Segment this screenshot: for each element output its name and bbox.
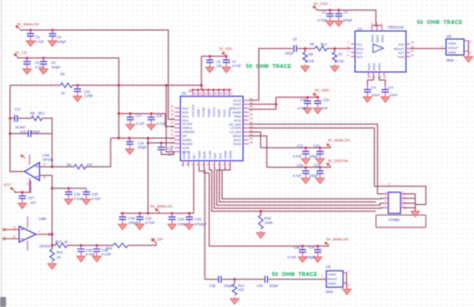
wire top bar riser — [200, 56, 202, 90]
connector CON8A left pins — [384, 194, 388, 208]
svg-text:C4: C4 — [57, 35, 61, 39]
capacitor C22 — [316, 148, 325, 164]
capacitor C6 — [39, 58, 48, 74]
IC U2 left pins — [175, 108, 181, 151]
wire RF out — [249, 49, 293, 101]
svg-text:C6: C6 — [51, 61, 55, 65]
svg-text:2.2NF: 2.2NF — [84, 94, 93, 98]
svg-text:VCC2: VCC2 — [222, 109, 226, 117]
svg-text:100pF: 100pF — [51, 66, 60, 70]
resistor R10 — [260, 211, 262, 215]
wire 3V_VDD to pins — [249, 97, 276, 109]
capacitor C26 — [82, 188, 91, 204]
svg-text:IN/OUT: IN/OUT — [448, 46, 458, 50]
svg-text:C33: C33 — [195, 218, 202, 222]
wire C12 branch — [10, 117, 31, 119]
svg-text:C27: C27 — [28, 196, 34, 200]
svg-text:C17: C17 — [136, 114, 142, 118]
ground R10 — [257, 231, 266, 238]
svg-text:1K: 1K — [57, 256, 62, 260]
svg-text:VCCV1: VCCV1 — [212, 107, 216, 117]
wire bus 3 — [217, 167, 384, 206]
svg-text:IN/OUT: IN/OUT — [328, 277, 338, 281]
svg-text:100K: 100K — [265, 221, 274, 225]
capacitor C10 — [73, 85, 82, 101]
svg-text:3V_VDD: 3V_VDD — [219, 47, 233, 51]
svg-text:3V_DIGITAL: 3V_DIGITAL — [328, 159, 349, 163]
wire C13 branch — [10, 133, 52, 135]
svg-text:100pF: 100pF — [57, 40, 66, 44]
svg-text:3V_CK: 3V_CK — [15, 51, 27, 55]
ground R14 — [230, 297, 239, 304]
wire C39 to U6 — [269, 278, 327, 280]
wire mid net — [111, 137, 175, 139]
svg-text:VCC: VCC — [3, 183, 11, 187]
op-amp U4B — [19, 226, 36, 242]
svg-text:C25: C25 — [74, 192, 80, 196]
page edge — [1, 0, 3, 307]
svg-text:GND9: GND9 — [229, 150, 233, 158]
no-connect marks U4B inputs — [3, 228, 6, 240]
svg-text:100: 100 — [238, 288, 244, 292]
svg-text:R42: R42 — [106, 247, 112, 251]
svg-text:R41: R41 — [57, 251, 64, 255]
IC U2 left pin names — [182, 106, 194, 153]
resistor R42 — [113, 243, 128, 248]
capacitor C5 — [23, 58, 32, 74]
svg-text:C3: C3 — [35, 35, 39, 39]
svg-text:50 OHM TRACE: 50 OHM TRACE — [417, 20, 463, 26]
svg-text:U5: U5 — [447, 35, 452, 39]
wire rail 3V_VDD top — [317, 10, 376, 25]
wire node A right — [73, 84, 202, 86]
resistor R5 — [315, 46, 327, 51]
IC U2 bottom pin names — [182, 150, 233, 158]
connector CON8A outer loop bottom — [376, 215, 426, 227]
svg-text:100pF: 100pF — [371, 93, 380, 97]
power symbol 3V_OP — [152, 239, 156, 243]
IC U2 top pin numbers — [194, 93, 234, 96]
svg-text:VCCVCO: VCCVCO — [191, 104, 195, 117]
svg-text:VLIN2: VLIN2 — [208, 150, 212, 158]
resistor R9 — [61, 83, 73, 88]
svg-text:R8: R8 — [30, 112, 34, 116]
IC U2 bottom pin numbers — [181, 162, 231, 166]
svg-text:100pF: 100pF — [306, 255, 315, 259]
power symbol 3V_ANALOG bottom — [325, 242, 329, 246]
wire C38 to R14 — [222, 278, 235, 280]
capacitor C1 — [326, 10, 335, 26]
svg-text:4.7UF: 4.7UF — [318, 19, 327, 23]
wire node A left — [10, 84, 61, 86]
resistor R4 — [74, 164, 86, 169]
capacitor C32 — [168, 213, 177, 229]
svg-text:4.7UF: 4.7UF — [298, 106, 307, 110]
svg-text:R9: R9 — [61, 72, 65, 76]
wire bus 4 — [219, 167, 376, 202]
power symbol VCC — [11, 187, 15, 191]
svg-text:GND2: GND2 — [448, 41, 457, 45]
svg-text:C13: C13 — [388, 85, 394, 89]
capacitor C36 — [93, 245, 102, 261]
svg-text:4.7UF: 4.7UF — [293, 174, 302, 178]
wire R14 to C39 — [235, 278, 264, 280]
svg-text:1nF: 1nF — [216, 64, 222, 68]
svg-text:4.7UF: 4.7UF — [293, 155, 302, 159]
svg-text:7: 7 — [39, 230, 41, 234]
capacitor C38 — [219, 276, 222, 283]
wire QFP to CON8A a — [249, 124, 384, 194]
svg-text:GND2: GND2 — [328, 273, 336, 277]
power symbol 3V_ANALOG right — [327, 144, 331, 148]
IC U1 left pin names — [357, 42, 364, 59]
power symbol 3V_CK — [14, 54, 18, 58]
svg-text:C36: C36 — [294, 246, 300, 250]
power symbol 3V_VDD C7C8 — [222, 52, 226, 56]
wire riser x148 — [147, 138, 149, 214]
wire CON8A gnd collect — [405, 194, 416, 211]
svg-text:GND2: GND2 — [370, 34, 374, 42]
wire rail 3VA right — [261, 147, 331, 149]
svg-text:C18: C18 — [156, 114, 162, 118]
svg-text:R5: R5 — [310, 43, 314, 47]
svg-text:6: 6 — [44, 176, 46, 180]
wire rail 3VD — [267, 166, 331, 168]
svg-text:C15: C15 — [300, 98, 306, 102]
svg-text:100pF: 100pF — [138, 146, 147, 150]
capacitor C7 — [222, 56, 231, 72]
svg-text:VDDA: VDDA — [197, 151, 201, 159]
svg-text:100pF: 100pF — [309, 174, 318, 178]
svg-text:R10: R10 — [265, 217, 272, 221]
power symbol U4A V+ — [21, 155, 25, 159]
capacitor C4 — [48, 30, 57, 46]
svg-text:R6: R6 — [309, 53, 313, 57]
IC U2 right pin names — [229, 99, 242, 147]
svg-text:TRW1016: TRW1016 — [388, 26, 404, 30]
svg-text:GND1: GND1 — [328, 282, 336, 286]
resistor R7 — [334, 49, 336, 53]
svg-text:C21: C21 — [297, 144, 303, 148]
capacitor C19 — [126, 138, 135, 154]
IC U2 right pins — [243, 100, 249, 144]
svg-text:3V_ANALOG: 3V_ANALOG — [150, 205, 173, 209]
connector U6 right pins — [343, 273, 347, 284]
resistor R8 — [31, 116, 42, 121]
wire VCC to C27 — [15, 181, 31, 193]
svg-text:C38: C38 — [209, 284, 215, 288]
wire R8 to corner — [42, 118, 52, 133]
IC U2 bottom pins — [183, 161, 230, 167]
wire feedback down — [51, 134, 53, 167]
svg-text:4.7UF: 4.7UF — [232, 64, 241, 68]
svg-text:SMA: SMA — [326, 290, 334, 294]
wire QFP top bar — [193, 89, 232, 91]
svg-text:R7: R7 — [339, 53, 343, 57]
wire R13 to caps — [67, 244, 113, 246]
IC U1 bottom pin names — [367, 63, 382, 71]
svg-text:SDA: SDA — [213, 153, 217, 159]
IC U1 body — [355, 31, 406, 72]
IC U2 top pin names — [191, 104, 231, 117]
svg-text:NC8: NC8 — [398, 55, 404, 59]
svg-text:C31: C31 — [145, 217, 152, 221]
capacitor C23 — [301, 167, 310, 183]
power symbol 3V_ANALOG mid — [155, 209, 159, 213]
svg-text:4.7UF: 4.7UF — [136, 122, 145, 126]
svg-text:SCK: SCK — [218, 153, 222, 159]
svg-text:C24: C24 — [314, 164, 320, 168]
connector CON8A right pin numbers — [402, 191, 404, 208]
capacitor C13 — [28, 130, 31, 137]
junction U4B out — [48, 233, 51, 236]
capacitor C39 — [265, 276, 268, 283]
op-amp U4A V- pin — [29, 178, 31, 192]
svg-text:NC3: NC3 — [357, 55, 363, 59]
svg-text:BVDD: BVDD — [187, 151, 191, 159]
capacitor C13 — [381, 86, 390, 102]
svg-text:MISO: MISO — [203, 151, 207, 159]
svg-text:100pF: 100pF — [224, 284, 233, 288]
capacitor C11 — [363, 86, 372, 102]
svg-text:6: 6 — [14, 235, 16, 239]
wire chain to C38 — [205, 278, 218, 280]
wire U4B input- — [4, 238, 19, 240]
capacitor C3 — [26, 30, 35, 46]
svg-text:5: 5 — [14, 226, 16, 230]
svg-text:3V_ANALOG: 3V_ANALOG — [326, 238, 349, 242]
power symbol 3V_DIGITAL — [327, 163, 331, 167]
power symbol 3V_ANALOG — [16, 26, 20, 30]
svg-text:OP291: OP291 — [39, 244, 50, 248]
capacitor C25 — [64, 188, 73, 204]
capacitor C35 — [77, 245, 86, 261]
svg-text:3V_VDD: 3V_VDD — [315, 89, 330, 93]
wire QFP to 3VD — [249, 136, 267, 167]
wire left rail — [10, 85, 25, 171]
svg-text:VDDD: VDDD — [223, 150, 227, 158]
wire U4B input+ — [4, 229, 19, 231]
svg-text:4.7UF: 4.7UF — [92, 197, 101, 201]
wire bus 5 — [222, 167, 384, 199]
svg-text:50 OHM TRACE: 50 OHM TRACE — [246, 64, 292, 70]
svg-text:3V_ANALOG: 3V_ANALOG — [17, 23, 40, 27]
svg-text:4700pF: 4700pF — [195, 223, 208, 227]
svg-text:2: 2 — [44, 163, 46, 167]
wire U5 gnd — [468, 41, 470, 55]
wire cap C20 top — [148, 142, 175, 144]
svg-text:56.2: 56.2 — [38, 112, 45, 116]
svg-text:R4: R4 — [67, 163, 71, 167]
IC U1 top pin names — [370, 34, 384, 42]
connector U5 body — [446, 39, 464, 55]
ground R6 — [301, 65, 310, 72]
ground U5 — [464, 55, 473, 62]
resistor R41 — [51, 245, 53, 249]
wire bypass rail C17C18 — [119, 114, 175, 127]
IC U1 left pins — [351, 44, 355, 57]
svg-text:100pF: 100pF — [343, 19, 352, 23]
op-amp U4B V- pin — [27, 241, 29, 251]
capacitor C8 — [206, 56, 215, 72]
svg-text:C37: C37 — [309, 246, 315, 250]
IC U1 top pin numbers — [371, 21, 383, 25]
wire QFP to 3VA right — [249, 132, 261, 148]
svg-text:100pF: 100pF — [31, 130, 40, 134]
svg-text:4.7UF: 4.7UF — [145, 221, 156, 225]
wire U4A pin2 out — [40, 166, 75, 168]
wire bus 2 — [214, 167, 384, 209]
wire U4A pin6 down — [40, 175, 53, 245]
wire U6 gnd — [346, 273, 348, 288]
svg-text:OP291: OP291 — [43, 158, 54, 162]
corner artifact — [0, 297, 6, 307]
svg-text:GND4: GND4 — [380, 34, 384, 42]
svg-text:C32: C32 — [178, 218, 185, 222]
capacitor C15 — [303, 97, 312, 113]
svg-text:16.9nF: 16.9nF — [15, 126, 25, 130]
svg-text:VDD2: VDD2 — [372, 63, 376, 71]
svg-text:C16: C16 — [323, 98, 329, 102]
ground R7 — [330, 65, 339, 72]
connector U5 pin names — [448, 41, 458, 54]
svg-text:SMA: SMA — [446, 59, 454, 63]
svg-text:C39: C39 — [257, 284, 263, 288]
wire QFP pin26 down — [204, 167, 209, 247]
svg-text:NC12: NC12 — [234, 142, 242, 146]
svg-text:4.7UF: 4.7UF — [156, 122, 165, 126]
svg-text:56.2: 56.2 — [321, 43, 328, 47]
IC U1 amp symbol — [373, 44, 384, 53]
svg-text:VDD3: VDD3 — [378, 63, 382, 71]
svg-text:C26: C26 — [92, 192, 98, 196]
connector U6 left pin — [322, 278, 327, 280]
wire U1 top bar — [372, 24, 382, 26]
svg-text:NC: NC — [192, 155, 196, 159]
connector U6 pin names — [328, 273, 338, 286]
wire QFP to CON8A b loop — [249, 128, 426, 205]
capacitor C20 — [160, 143, 162, 147]
op-amp U4A — [25, 163, 40, 181]
wire R4 to riser — [86, 138, 111, 167]
svg-text:AVDD: AVDD — [182, 151, 186, 159]
wire C9 to R5 — [298, 48, 315, 50]
capacitor C31 — [136, 213, 145, 229]
svg-text:GND3: GND3 — [375, 34, 379, 42]
no-connect mark top bar — [189, 90, 192, 92]
IC U2 right pin numbers — [250, 97, 253, 145]
svg-text:VTUNE: VTUNE — [202, 107, 206, 117]
svg-text:C12: C12 — [15, 107, 21, 111]
wire U1 cap C13 elbow — [379, 76, 385, 86]
wire QFP pin23 down — [193, 167, 195, 214]
svg-text:C1: C1 — [322, 10, 326, 14]
wire cap C20 bottom — [161, 151, 174, 154]
capacitor C27 — [18, 192, 27, 208]
svg-text:100pF: 100pF — [309, 155, 318, 159]
capacitor C9 — [294, 45, 297, 52]
wire rail mid 3V_ANALOG — [120, 212, 194, 214]
wire bypass rail U4 — [52, 187, 86, 189]
svg-text:U4A: U4A — [43, 154, 51, 158]
svg-text:U1: U1 — [358, 27, 363, 31]
svg-text:GND1: GND1 — [448, 50, 457, 54]
svg-text:C23: C23 — [297, 164, 303, 168]
op-amp U4A V+ pin — [29, 155, 31, 166]
svg-text:0.1UF: 0.1UF — [102, 253, 113, 257]
svg-text:1nF: 1nF — [30, 201, 36, 205]
IC U1 bottom pin numbers — [368, 75, 387, 79]
connector U5 right pins — [464, 41, 469, 52]
wire rail bottom 3VA — [209, 245, 329, 247]
svg-text:C5: C5 — [35, 61, 39, 65]
IC U1 right pin names — [394, 42, 405, 59]
svg-text:50 OHM TRACE: 50 OHM TRACE — [272, 272, 318, 278]
capacitor C37b — [313, 246, 322, 262]
IC U1 right pin numbers — [411, 40, 414, 57]
svg-text:C9: C9 — [293, 37, 297, 41]
wire U1 cap C11 elbow — [368, 76, 374, 86]
ground R41 — [48, 262, 57, 269]
resistor R6 — [304, 49, 306, 53]
capacitor C33 — [185, 213, 194, 229]
IC U2 body — [180, 96, 243, 160]
capacitor C18 — [147, 114, 156, 130]
capacitor C24 — [316, 167, 325, 183]
connector CON8A right pins — [401, 194, 405, 208]
power symbol 3V_VDD mid — [313, 93, 317, 97]
svg-text:GNDF: GNDF — [196, 109, 200, 117]
power symbol 3V_VDD top — [313, 6, 317, 10]
ground U6 — [343, 288, 352, 295]
capacitor C21 — [301, 148, 310, 164]
connector U6 body — [326, 271, 343, 287]
svg-text:GNDB: GNDB — [207, 109, 211, 117]
capacitor C12 — [15, 115, 18, 122]
svg-text:178: 178 — [308, 59, 314, 63]
wire rail C7C8 — [201, 55, 226, 57]
wire RFOUT to U5 — [410, 48, 446, 50]
connector CON8A left pin numbers — [385, 191, 387, 208]
svg-text:1K: 1K — [64, 240, 69, 244]
wire node A to pin12 — [166, 85, 175, 151]
wire bus 1 — [209, 167, 376, 212]
capacitor C30 — [118, 213, 127, 229]
svg-text:VDD1: VDD1 — [367, 63, 371, 71]
capacitor C2 — [334, 10, 343, 26]
svg-text:100pF: 100pF — [389, 93, 398, 97]
svg-text:C2: C2 — [344, 10, 348, 14]
svg-text:U6: U6 — [326, 265, 331, 269]
svg-text:C13: C13 — [20, 130, 26, 134]
svg-text:3V_OP: 3V_OP — [151, 238, 164, 242]
svg-text:100pF: 100pF — [285, 52, 294, 56]
wire QFP pin25 down — [199, 167, 205, 280]
IC U2 left pin numbers — [171, 105, 174, 152]
svg-text:GND6: GND6 — [228, 109, 232, 117]
svg-text:R13: R13 — [56, 240, 62, 244]
svg-text:3V_ANALOG: 3V_ANALOG — [328, 139, 351, 143]
svg-text:GND5: GND5 — [217, 109, 221, 117]
svg-text:178: 178 — [338, 59, 344, 63]
svg-text:1nF: 1nF — [322, 106, 328, 110]
IC U1 top pins — [372, 25, 382, 31]
resistor R13 — [55, 243, 67, 248]
wire rail 3V_CK — [17, 58, 119, 138]
IC U1 right pins — [406, 44, 410, 57]
svg-text:4.7UF: 4.7UF — [287, 255, 296, 259]
IC U1 bottom pins — [369, 72, 385, 76]
